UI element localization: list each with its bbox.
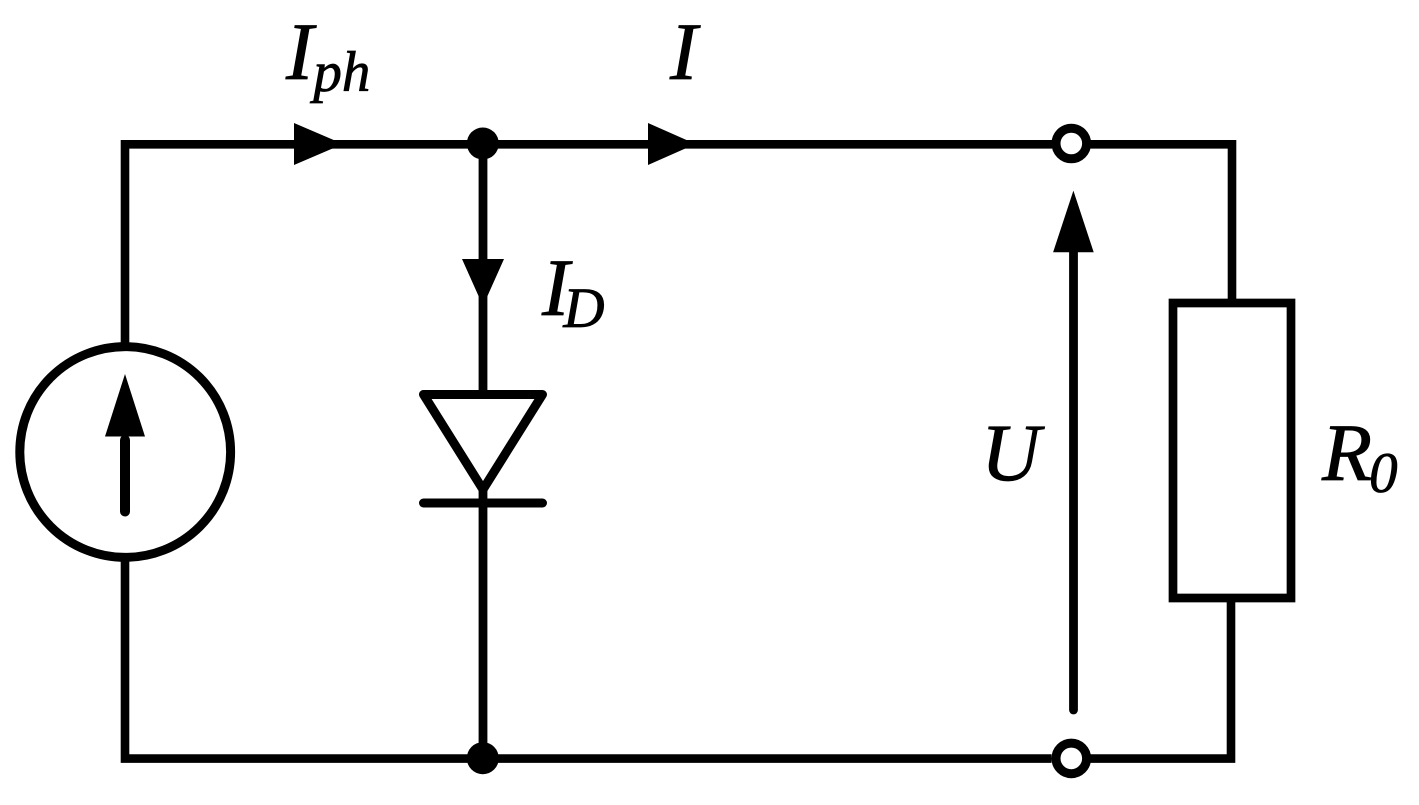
arrow U (voltage) shaft	[1069, 250, 1078, 710]
current source arrowhead	[105, 374, 145, 437]
wire left vertical + top horizontal (source to node A)	[125, 144, 1052, 346]
wire diode branch vertical	[479, 144, 488, 759]
arrow I on top wire	[648, 123, 696, 165]
terminal - (bottom, open circle)	[1056, 743, 1087, 774]
arrow ID on diode branch	[462, 259, 504, 306]
node B junction dot (bottom)	[467, 742, 499, 774]
diode D1 cathode bar	[424, 499, 543, 508]
node A junction dot (top)	[467, 128, 499, 160]
svg-text:I: I	[669, 6, 701, 97]
svg-text:U: U	[981, 407, 1045, 498]
terminal + (top, open circle)	[1056, 128, 1087, 159]
wire left vertical lower + bottom horizontal (source to bottom node)	[125, 558, 1052, 759]
arrow U head	[1053, 191, 1094, 253]
arrow Iph on top wire	[294, 123, 343, 165]
resistor R0 body	[1173, 303, 1291, 598]
wire top right (terminal to resistor top)	[1091, 144, 1233, 302]
current source U1 circle	[20, 347, 231, 558]
current source arrow shaft	[120, 440, 130, 512]
wire bottom right (resistor bottom to bottom terminal)	[1091, 599, 1232, 759]
diode D1 triangle	[424, 395, 543, 490]
